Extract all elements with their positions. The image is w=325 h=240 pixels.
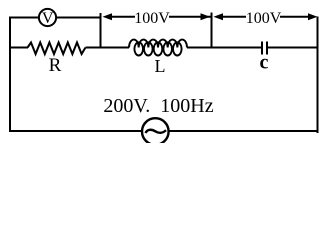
dimension arrow 100V (left span) <box>103 13 212 20</box>
svg-text:200V. 100Hz: 200V. 100Hz <box>103 95 213 117</box>
capacitor C plate right <box>266 42 268 55</box>
inductor L <box>129 40 187 56</box>
svg-text:V: V <box>42 10 54 27</box>
resistor R <box>28 43 86 55</box>
node tick at top of C branch <box>211 13 213 49</box>
svg-text:c: c <box>260 52 269 74</box>
wire right edge <box>317 17 319 134</box>
AC source <box>142 118 169 145</box>
wire bottom <box>9 130 318 132</box>
wire top (through voltmeter) <box>9 17 101 19</box>
svg-text:100V: 100V <box>246 10 282 27</box>
svg-text:L: L <box>155 56 166 76</box>
node tick at top of L branch <box>100 13 102 48</box>
wire inductor to capacitor <box>187 47 262 49</box>
wire resistor to inductor <box>86 47 130 49</box>
svg-text:R: R <box>49 55 62 76</box>
wire main row: left lead to resistor <box>9 47 28 49</box>
svg-text:100V: 100V <box>134 10 170 27</box>
voltmeter V <box>39 9 56 27</box>
wire capacitor to right edge <box>267 47 318 49</box>
dimension arrow 100V (right span) <box>214 13 318 20</box>
wire left edge <box>9 17 11 133</box>
capacitor C plate left <box>261 42 263 55</box>
